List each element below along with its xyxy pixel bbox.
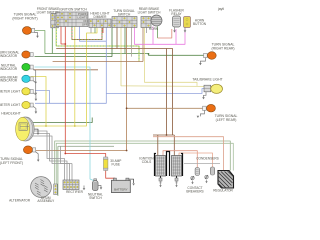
svg-text:LIGHT SWITCH: LIGHT SWITCH: [37, 10, 60, 14]
svg-text:FUSE: FUSE: [112, 162, 121, 166]
svg-text:jaytl: jaytl: [217, 7, 224, 11]
svg-text:HORN: HORN: [149, 27, 159, 31]
svg-text:OFF: OFF: [82, 23, 88, 27]
svg-text:DIMMER: DIMMER: [94, 15, 108, 19]
svg-text:COILS: COILS: [142, 160, 152, 164]
svg-text:METER LIGHT: METER LIGHT: [0, 103, 20, 107]
svg-text:(LEFT REAR): (LEFT REAR): [216, 118, 237, 122]
svg-text:SWITCH: SWITCH: [89, 196, 102, 200]
svg-text:CONDENSERS: CONDENSERS: [196, 156, 219, 160]
svg-text:IGNITION SWITCH: IGNITION SWITCH: [59, 8, 87, 12]
svg-text:BUTTON: BUTTON: [193, 22, 207, 26]
svg-text:TAIL/BRAKE LIGHT: TAIL/BRAKE LIGHT: [192, 77, 222, 81]
svg-text:HEADLIGHT: HEADLIGHT: [1, 112, 20, 116]
svg-text:(RIGHT FRONT): (RIGHT FRONT): [12, 17, 37, 21]
svg-text:INDICATOR: INDICATOR: [0, 79, 18, 83]
svg-text:(RIGHT REAR): (RIGHT REAR): [211, 46, 234, 50]
svg-text:BREAKERS: BREAKERS: [186, 189, 203, 193]
svg-text:ASSEMBLY: ASSEMBLY: [37, 199, 55, 203]
svg-text:RECTIFIER: RECTIFIER: [66, 190, 84, 194]
svg-text:SWITCH: SWITCH: [118, 12, 131, 16]
svg-text:METER LIGHT: METER LIGHT: [0, 89, 20, 93]
svg-text:RELAY: RELAY: [171, 12, 182, 16]
svg-text:BATTERY: BATTERY: [114, 188, 128, 192]
svg-text:LIGHT SWITCH: LIGHT SWITCH: [138, 10, 161, 14]
svg-text:REGULATOR: REGULATOR: [213, 189, 233, 193]
svg-text:(LEFT FRONT): (LEFT FRONT): [0, 161, 23, 165]
svg-text:INDICATOR: INDICATOR: [0, 67, 18, 71]
svg-text:ALTERNATOR: ALTERNATOR: [9, 198, 31, 202]
svg-text:INDICATOR: INDICATOR: [0, 54, 18, 58]
